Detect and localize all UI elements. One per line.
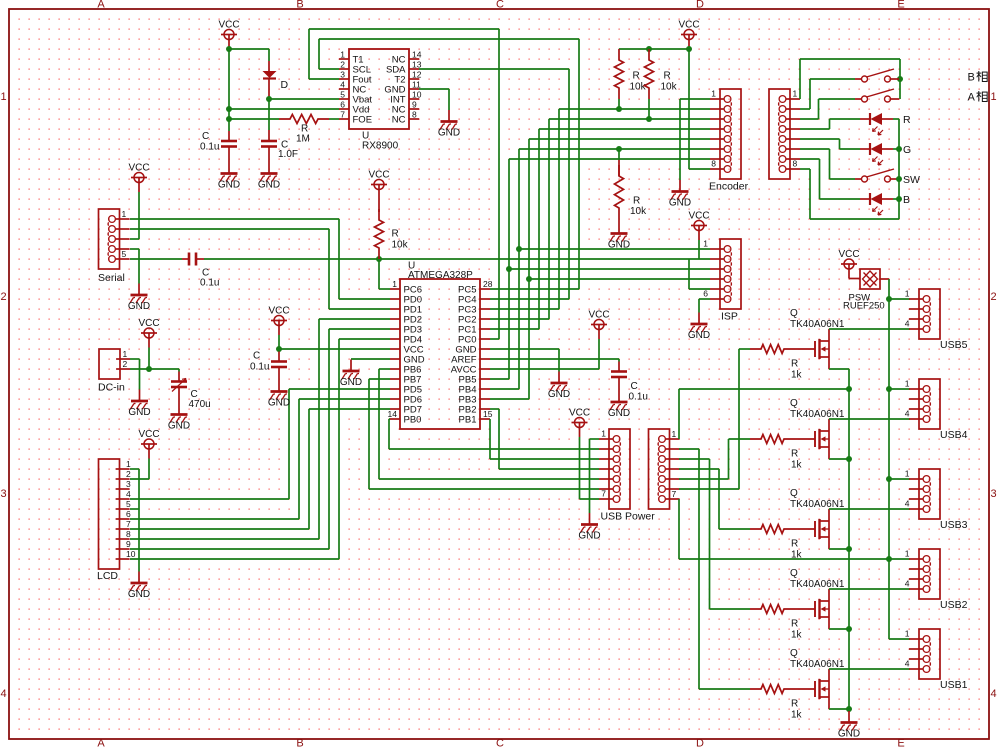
svg-text:USB1: USB1: [940, 679, 968, 691]
svg-text:1.0F: 1.0F: [278, 149, 298, 160]
svg-text:6: 6: [126, 509, 131, 519]
wire AREF to capacitor: [490, 359, 619, 362]
wire Q2 source: [829, 458, 849, 460]
wire Encoder pin5 to PB3: [490, 139, 710, 399]
svg-text:GND: GND: [608, 408, 630, 419]
wire AVCC: [490, 339, 599, 369]
wire gate header pin2 to Q5 gate: [679, 449, 750, 689]
svg-text:GND: GND: [268, 398, 290, 409]
svg-text:10k: 10k: [630, 82, 647, 93]
wire Encoder pin2 to PC3: [490, 106, 710, 309]
connector switches (8-pin): [769, 89, 800, 180]
LED R: [860, 113, 911, 135]
wire Encoder pin1 to GND: [680, 99, 710, 180]
wire LED/SW common to pin8: [800, 119, 902, 219]
svg-text:C: C: [202, 131, 209, 142]
resistor R 1k (Q4 gate): [750, 605, 803, 641]
wire Encoder pin8 VCC: [689, 49, 710, 169]
ground GND (encoder SW pullup): [608, 222, 630, 251]
svg-text:4: 4: [905, 659, 910, 669]
svg-text:R: R: [392, 229, 399, 240]
supply VCC (AVCC): [588, 310, 609, 340]
svg-text:A: A: [968, 92, 976, 104]
connector USB Power (left half): [599, 429, 655, 523]
wire Q2 drain to USB4: [829, 418, 910, 420]
svg-text:3: 3: [990, 488, 996, 500]
svg-text:VCC: VCC: [128, 163, 149, 174]
svg-text:9: 9: [126, 539, 131, 549]
svg-text:C: C: [253, 351, 260, 362]
svg-text:1: 1: [340, 50, 345, 60]
svg-text:D: D: [281, 79, 289, 91]
svg-text:E: E: [897, 0, 904, 11]
svg-text:0.1u: 0.1u: [200, 278, 219, 289]
svg-text:4: 4: [0, 688, 6, 700]
wire SCL net: [319, 39, 579, 289]
switch A-phase: [855, 89, 899, 102]
svg-text:4: 4: [340, 80, 345, 90]
svg-text:11: 11: [412, 80, 421, 90]
svg-text:GND: GND: [258, 180, 280, 191]
svg-text:5: 5: [122, 249, 127, 259]
svg-text:10: 10: [126, 549, 136, 559]
svg-text:D: D: [696, 738, 704, 748]
svg-text:10k: 10k: [661, 82, 678, 93]
svg-text:6: 6: [703, 289, 708, 299]
svg-text:VCC: VCC: [218, 20, 239, 31]
svg-text:R: R: [903, 114, 911, 126]
svg-text:1k: 1k: [791, 370, 803, 381]
svg-text:8: 8: [793, 159, 798, 169]
svg-text:Q: Q: [790, 568, 798, 579]
wire pin5 to LED G: [800, 139, 860, 149]
capacitor C 0.1u (ATMEGA VCC): [250, 351, 287, 381]
svg-text:28: 28: [483, 279, 493, 289]
svg-text:2: 2: [126, 469, 131, 479]
svg-text:3: 3: [340, 70, 345, 80]
svg-text:R: R: [633, 196, 640, 207]
svg-text:1: 1: [990, 91, 996, 103]
ground GND (AREF cap): [608, 391, 630, 420]
wire gate header pin5 to Q2 gate: [679, 439, 750, 479]
svg-text:1k: 1k: [791, 460, 803, 471]
svg-text:GND: GND: [688, 330, 710, 341]
IC U ATMEGA328P: [388, 261, 493, 430]
svg-text:7: 7: [340, 110, 345, 120]
resistor R 10k (reset pullup): [375, 199, 409, 259]
svg-text:VCC: VCC: [569, 408, 590, 419]
wire PD3 to LCD pin9: [130, 329, 390, 549]
wire ISP pin2 VCC: [689, 240, 710, 259]
wire DC-in pin1 to GND: [130, 359, 140, 390]
supply VCC (Serial): [128, 163, 149, 193]
ground GND (RX8900): [438, 110, 460, 139]
svg-text:1: 1: [392, 279, 397, 289]
ground GND (Serial): [128, 284, 150, 313]
svg-text:USB2: USB2: [940, 599, 968, 611]
svg-text:0.1u: 0.1u: [200, 142, 219, 153]
wire gate header pin7 to USB2 VCC row: [679, 499, 910, 562]
svg-text:2: 2: [0, 291, 6, 303]
svg-text:R: R: [791, 449, 798, 460]
svg-text:4: 4: [126, 489, 131, 499]
svg-text:R: R: [791, 359, 798, 370]
capacitor C 1.0F: [261, 130, 298, 162]
svg-text:C: C: [496, 0, 504, 11]
svg-text:1: 1: [793, 89, 798, 99]
svg-text:10k: 10k: [392, 240, 409, 251]
connector USB1: [905, 629, 968, 692]
transistor Q2 TK40A06N1: [790, 398, 845, 459]
svg-text:B: B: [296, 0, 303, 11]
svg-text:B: B: [296, 738, 303, 748]
ground GND (Encoder): [669, 180, 691, 209]
resistor R 10k (encoder A): [615, 49, 647, 109]
wire VCC net to diode and caps: [226, 46, 269, 131]
svg-text:14: 14: [388, 409, 398, 419]
svg-text:A: A: [97, 738, 105, 748]
svg-text:G: G: [903, 144, 911, 156]
switch SW: [855, 169, 920, 186]
svg-text:1k: 1k: [791, 550, 803, 561]
svg-text:NC: NC: [392, 115, 406, 126]
supply VCC (ATMEGA): [268, 306, 289, 336]
wire PD4 to LCD pin10: [130, 339, 390, 559]
svg-text:GND: GND: [218, 180, 240, 191]
svg-text:Q: Q: [790, 488, 798, 499]
resistor R 10k (encoder SW): [615, 149, 648, 222]
svg-text:1: 1: [126, 459, 131, 469]
svg-text:RX8900: RX8900: [362, 141, 399, 152]
ground GND (C 470u): [168, 403, 190, 432]
connector USB5: [905, 289, 968, 352]
svg-text:USB3: USB3: [940, 519, 968, 531]
svg-text:R: R: [791, 699, 798, 710]
supply VCC (DC-in): [138, 318, 159, 348]
svg-text:1: 1: [123, 349, 128, 359]
wire SDA net: [419, 69, 569, 299]
wire Vbat net: [266, 96, 339, 130]
svg-text:5: 5: [126, 499, 131, 509]
wire source rail to GND: [846, 369, 852, 712]
svg-text:10k: 10k: [630, 206, 647, 217]
connector DC-in: [98, 349, 130, 394]
ground GND (source rail): [838, 711, 860, 740]
svg-text:1k: 1k: [791, 630, 803, 641]
ground GND (ATMEGA right): [548, 372, 570, 401]
supply VCC (RTC): [218, 20, 239, 50]
svg-text:USB4: USB4: [940, 429, 968, 441]
svg-text:GND: GND: [168, 421, 190, 432]
supply VCC (reset pullup): [368, 170, 389, 200]
svg-text:Q: Q: [790, 398, 798, 409]
wire RESET net: [204, 256, 689, 289]
svg-text:GND: GND: [128, 407, 150, 418]
wire ATMEGA VCC pin: [276, 335, 390, 352]
wire PB6 to USB Power pin5: [379, 369, 599, 479]
wire PD5 to LCD pin4: [130, 389, 390, 499]
svg-text:2: 2: [990, 291, 996, 303]
wire switch common to pin1: [800, 59, 903, 99]
wire DC-in pin2 VCC: [130, 348, 179, 373]
connector Encoder: [709, 89, 749, 193]
ground GND (ISP): [688, 313, 710, 342]
svg-text:8: 8: [412, 110, 417, 120]
wire Encoder pin3 to PC2: [490, 116, 710, 319]
svg-text:VCC: VCC: [138, 318, 159, 329]
supply VCC (USB Power): [569, 408, 590, 438]
svg-text:PB0: PB0: [404, 415, 422, 426]
wire Q1 drain to USB5: [829, 328, 910, 330]
supply VCC (PSW): [838, 249, 859, 279]
svg-text:VCC: VCC: [678, 20, 699, 31]
wire Serial pin4 to GND: [130, 249, 139, 284]
switch B-phase: [855, 69, 899, 82]
svg-text:GND: GND: [438, 128, 460, 139]
svg-text:1: 1: [703, 239, 708, 249]
svg-text:2: 2: [123, 359, 128, 369]
connector gate header (right half): [649, 429, 680, 509]
svg-text:12: 12: [412, 70, 422, 80]
svg-text:8: 8: [711, 159, 716, 169]
svg-text:USB5: USB5: [940, 339, 968, 351]
svg-text:4: 4: [905, 499, 910, 509]
svg-text:1: 1: [905, 289, 910, 299]
wire ISP pin6 to GND: [699, 299, 710, 313]
wire Serial pin5 to capacitor: [130, 258, 182, 260]
svg-text:1k: 1k: [791, 710, 803, 721]
svg-text:VCC: VCC: [588, 310, 609, 321]
svg-text:R: R: [633, 71, 640, 82]
wire PB0 to USB Power pin2: [389, 419, 599, 449]
wire VCC rail (USB): [886, 279, 910, 639]
svg-text:PB1: PB1: [459, 415, 477, 426]
svg-text:R: R: [791, 619, 798, 630]
svg-text:7: 7: [126, 519, 131, 529]
wire pin6 to switch SW: [800, 149, 855, 179]
wire gate header pin1 to source rail: [679, 389, 849, 439]
wire pin4 to LED R: [800, 119, 860, 129]
label A-phase: [968, 91, 988, 103]
svg-text:GND: GND: [669, 198, 691, 209]
supply VCC (encoder): [678, 20, 699, 50]
connector Serial: [98, 209, 130, 284]
resistor R 1k (Q2 gate): [750, 435, 803, 471]
wire Encoder pin6 to PB4: [490, 146, 710, 389]
connector USB4: [905, 379, 968, 442]
wire Q5 source: [829, 708, 849, 710]
svg-text:13: 13: [412, 60, 422, 70]
svg-text:LCD: LCD: [97, 570, 118, 582]
wire ATMEGA GND pin (left): [351, 358, 390, 360]
svg-text:1M: 1M: [296, 134, 310, 145]
resistor R 10k (encoder B): [645, 49, 678, 119]
wire RX8900 GND pin 11: [419, 89, 449, 110]
wire ISP pin4: [529, 278, 710, 280]
svg-text:4: 4: [990, 688, 996, 700]
ground GND (ATMEGA VCC cap): [268, 380, 290, 409]
svg-text:VCC: VCC: [838, 249, 859, 260]
svg-text:C: C: [496, 738, 504, 748]
svg-text:ISP: ISP: [721, 311, 738, 323]
capacitor C 0.1u (reset): [182, 253, 219, 289]
connector LCD: [97, 459, 136, 582]
wire gate header pin3 to Q4 gate: [679, 459, 750, 609]
wire ATMEGA GND pin (right): [490, 349, 559, 372]
svg-text:1: 1: [672, 429, 677, 439]
svg-text:Serial: Serial: [98, 272, 125, 284]
svg-text:E: E: [897, 738, 904, 748]
wire Q3 source: [829, 548, 849, 550]
svg-text:GND: GND: [340, 377, 362, 388]
svg-text:8: 8: [126, 529, 131, 539]
svg-text:4: 4: [905, 409, 910, 419]
wire Q5 drain to USB1: [829, 668, 910, 670]
wire VCC row (encoder pullups): [619, 46, 692, 52]
capacitor C 0.1u (RTC): [200, 131, 237, 162]
ground GND (USB Power): [578, 513, 600, 542]
svg-text:USB Power: USB Power: [601, 511, 656, 523]
wire Fout net: [309, 29, 499, 339]
transistor Q5 TK40A06N1: [790, 648, 845, 709]
svg-text:VCC: VCC: [138, 429, 159, 440]
svg-text:C: C: [631, 381, 638, 392]
svg-text:SW: SW: [903, 174, 920, 186]
diode D: [263, 61, 289, 99]
svg-text:1: 1: [905, 469, 910, 479]
wire LCD pin1/pin5 to GND: [130, 469, 139, 572]
svg-text:D: D: [696, 0, 704, 11]
wire Q3 drain to USB3: [829, 508, 910, 510]
wire PB1 to USB Power pin3: [490, 419, 599, 459]
svg-text:RUEF250: RUEF250: [843, 301, 885, 312]
svg-text:2: 2: [340, 60, 345, 70]
wire Serial pin2 to PD1: [130, 229, 390, 309]
svg-text:B: B: [903, 194, 910, 206]
connector USB3: [905, 469, 968, 532]
ground GND (under C 1.0F): [258, 162, 280, 191]
svg-text:GND: GND: [838, 729, 860, 740]
svg-text:FOE: FOE: [353, 115, 373, 126]
connector ISP: [703, 239, 741, 323]
svg-text:3: 3: [126, 479, 131, 489]
wire PD2 to LCD pin8: [130, 319, 390, 539]
svg-text:0.1u: 0.1u: [250, 362, 269, 373]
resistor R 1k (Q1 gate): [750, 345, 803, 381]
svg-text:Q: Q: [790, 308, 798, 319]
ground GND (LCD): [128, 572, 150, 601]
ground GND (DC-in): [128, 390, 150, 419]
svg-text:1: 1: [905, 549, 910, 559]
wire Q4 source: [829, 628, 849, 630]
wire ISP pin1: [519, 248, 710, 250]
wire PD7 to LCD pin7: [130, 409, 390, 529]
wire Encoder pin4 to PC1: [490, 129, 710, 329]
LED B: [860, 193, 910, 215]
svg-text:10: 10: [412, 90, 422, 100]
IC U RX8900: [339, 49, 422, 152]
svg-text:B: B: [968, 72, 975, 84]
wire ISP pin5 reset: [689, 259, 710, 289]
fuse PSW RUEF250: [843, 269, 889, 312]
wire pin7 to LED B: [800, 159, 860, 199]
wire Q1 source: [829, 368, 849, 370]
svg-text:4: 4: [905, 319, 910, 329]
supply VCC (LCD): [138, 429, 159, 459]
wire PD6 to LCD pin6: [130, 399, 390, 519]
svg-text:15: 15: [483, 409, 493, 419]
LED G: [860, 143, 911, 165]
svg-text:GND: GND: [128, 301, 150, 312]
svg-text:DC-in: DC-in: [98, 382, 125, 394]
svg-text:Encoder: Encoder: [709, 181, 749, 193]
svg-text:1: 1: [905, 629, 910, 639]
wire gate header pin4 to Q3 gate: [679, 469, 750, 529]
svg-text:3: 3: [0, 488, 6, 500]
wire Serial pin3 VCC: [130, 192, 139, 239]
transistor Q4 TK40A06N1: [790, 568, 845, 629]
svg-text:1: 1: [0, 91, 6, 103]
svg-text:7: 7: [672, 489, 677, 499]
svg-text:0.1u: 0.1u: [629, 392, 648, 403]
wire PB7 to USB Power pin6: [369, 379, 599, 489]
svg-text:GND: GND: [548, 389, 570, 400]
wire ISP pin3: [509, 268, 710, 270]
svg-text:1: 1: [711, 89, 716, 99]
svg-text:6: 6: [340, 100, 345, 110]
resistor R 1k (Q3 gate): [750, 525, 803, 561]
transistor Q3 TK40A06N1: [790, 488, 845, 549]
connector USB2: [905, 549, 968, 612]
wire Vdd net: [229, 108, 339, 110]
wire Encoder pin7 to PB5: [490, 159, 710, 379]
wire Serial pin1 to PD0: [130, 219, 390, 299]
svg-text:R: R: [791, 539, 798, 550]
supply VCC (ISP): [688, 211, 709, 241]
svg-text:5: 5: [340, 90, 345, 100]
resistor R 1k (Q5 gate): [750, 685, 803, 721]
svg-text:VCC: VCC: [368, 170, 389, 181]
wire PB2 to USB Power pin4: [490, 409, 599, 469]
label B-phase: [968, 71, 988, 83]
ground GND (ATMEGA left): [340, 360, 362, 389]
svg-text:4: 4: [905, 579, 910, 589]
svg-text:9: 9: [412, 100, 417, 110]
capacitor C 470u: [171, 372, 211, 411]
transistor Q1 TK40A06N1: [790, 308, 845, 369]
svg-text:R: R: [664, 71, 671, 82]
svg-text:GND: GND: [578, 531, 600, 542]
wire USB Power pin1 to GND: [590, 439, 600, 513]
svg-text:470u: 470u: [189, 399, 211, 410]
wire pin3 to switch A: [800, 99, 855, 119]
svg-text:1: 1: [601, 429, 606, 439]
resistor R 1M: [229, 115, 339, 145]
wire pin2 to switch B: [800, 79, 855, 109]
svg-text:ATMEGA328P: ATMEGA328P: [408, 270, 473, 281]
wire LCD pin2 VCC: [130, 459, 149, 480]
svg-text:GND: GND: [128, 589, 150, 600]
svg-text:1: 1: [905, 379, 910, 389]
svg-text:7: 7: [601, 489, 606, 499]
svg-text:1: 1: [122, 209, 127, 219]
svg-text:Q: Q: [790, 648, 798, 659]
wire gate header pin6 to Q1 gate: [679, 349, 750, 489]
svg-text:VCC: VCC: [268, 306, 289, 317]
svg-text:VCC: VCC: [688, 211, 709, 222]
ground GND (under C 0.1u): [218, 162, 240, 191]
wire Q4 drain to USB2: [829, 588, 910, 590]
